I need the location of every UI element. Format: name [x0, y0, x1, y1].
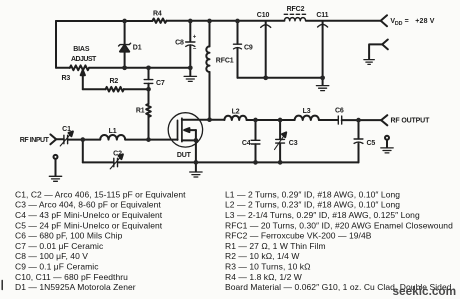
svg-text:C7 — 0.01 μF Ceramic: C7 — 0.01 μF Ceramic [15, 241, 104, 251]
svg-text:ADJUST: ADJUST [71, 56, 97, 63]
svg-text:R2 — 10 kΩ, 1/4 W: R2 — 10 kΩ, 1/4 W [225, 251, 299, 261]
svg-text:R1: R1 [136, 108, 145, 115]
svg-text:RFC2 — Ferroxcube VK-200 — 19/: RFC2 — Ferroxcube VK-200 — 19/4B [225, 231, 372, 241]
svg-text:RFC1 — 20 Turns, 0.30″ ID, #20: RFC1 — 20 Turns, 0.30″ ID, #20 AWG Ename… [225, 220, 453, 230]
svg-text:C6: C6 [335, 107, 344, 114]
svg-text:C1, C2 — Arco 406, 15-115 pF o: C1, C2 — Arco 406, 15-115 pF or Equivale… [15, 189, 186, 199]
svg-text:C3 — Arco 404, 8-60 pF or Equi: C3 — Arco 404, 8-60 pF or Equivalent [15, 200, 161, 210]
svg-text:C10, C11 — 680 pF Feedthru: C10, C11 — 680 pF Feedthru [15, 272, 128, 282]
svg-text:R4: R4 [153, 11, 162, 18]
svg-text:DUT: DUT [177, 152, 192, 159]
svg-text:seekic.com: seekic.com [393, 284, 457, 298]
svg-text:R3: R3 [62, 75, 71, 82]
svg-text:C10: C10 [257, 12, 270, 19]
svg-text:C8: C8 [175, 39, 184, 46]
svg-text:BIAS: BIAS [73, 46, 90, 53]
svg-text:D1 — 1N5925A Motorola Zener: D1 — 1N5925A Motorola Zener [15, 282, 136, 292]
svg-text:RFC2: RFC2 [287, 6, 305, 13]
svg-text:C1: C1 [62, 126, 71, 133]
svg-text:D1: D1 [133, 44, 142, 51]
svg-text:C5 — 24 pF Mini-Unelco or Equi: C5 — 24 pF Mini-Unelco or Equivalent [15, 220, 163, 230]
svg-text:RF INPUT: RF INPUT [20, 137, 50, 144]
svg-text:R4 — 1.8 kΩ, 1/2 W: R4 — 1.8 kΩ, 1/2 W [225, 272, 302, 282]
svg-text:C8 — 100 μF, 40 V: C8 — 100 μF, 40 V [15, 251, 88, 261]
svg-text:C6 — 680 pF, 100 Mils Chip: C6 — 680 pF, 100 Mils Chip [15, 231, 123, 241]
svg-text:C9: C9 [244, 44, 253, 51]
svg-text:C4 — 43 pF Mini-Unelco or Equi: C4 — 43 pF Mini-Unelco or Equivalent [15, 210, 163, 220]
svg-text:R1 — 27 Ω, 1 W Thin Film: R1 — 27 Ω, 1 W Thin Film [225, 241, 326, 251]
svg-text:L1 — 2 Turns, 0.29″ ID, #18 AW: L1 — 2 Turns, 0.29″ ID, #18 AWG, 0.10″ L… [225, 189, 400, 199]
svg-text:R2: R2 [110, 78, 119, 85]
svg-text:L3: L3 [303, 108, 311, 115]
svg-text:C3: C3 [289, 140, 298, 147]
svg-text:C11: C11 [316, 12, 328, 19]
svg-text:L1: L1 [109, 128, 117, 135]
svg-text:C5: C5 [367, 140, 376, 147]
svg-text:C4: C4 [242, 140, 251, 147]
svg-text:R3 — 10 Turns, 10 kΩ: R3 — 10 Turns, 10 kΩ [225, 262, 311, 272]
svg-text:C9 — 0.1 μF Ceramic: C9 — 0.1 μF Ceramic [15, 262, 99, 272]
svg-text:L3 — 2-1/4 Turns, 0.29″ ID, #1: L3 — 2-1/4 Turns, 0.29″ ID, #18 AWG, 0.1… [225, 210, 420, 220]
svg-text:RF OUTPUT: RF OUTPUT [391, 117, 431, 124]
svg-text:C7: C7 [156, 80, 165, 87]
svg-text:RFC1: RFC1 [216, 58, 234, 65]
svg-text:L2 — 2 Turns, 0.23″ ID, #18 AW: L2 — 2 Turns, 0.23″ ID, #18 AWG, 0.10″ L… [225, 200, 400, 210]
svg-text:L2: L2 [232, 109, 240, 116]
svg-text:C2: C2 [113, 151, 122, 158]
